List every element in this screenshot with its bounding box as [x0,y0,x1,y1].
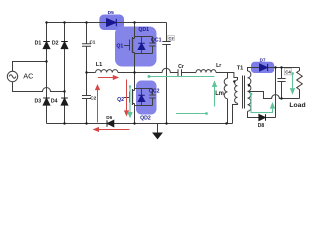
svg-text:Load: Load [289,102,305,109]
svg-text:T1: T1 [237,66,244,72]
svg-text:D7: D7 [260,58,266,63]
svg-text:Cr: Cr [178,64,184,70]
svg-text:C2: C2 [90,96,96,102]
svg-text:QD2: QD2 [140,116,151,122]
svg-text:D6: D6 [106,115,112,120]
svg-text:D5: D5 [108,10,114,16]
svg-text:D2: D2 [52,41,59,47]
svg-text:AC: AC [23,71,34,80]
svg-text:QC1: QC1 [151,37,162,43]
svg-text:L1: L1 [96,62,103,68]
svg-text:D4: D4 [51,98,58,104]
svg-text:QD1: QD1 [138,27,149,33]
svg-text:C1: C1 [89,39,95,44]
svg-text:D1: D1 [35,41,42,47]
svg-text:Q2: Q2 [117,97,124,103]
svg-text:Lr: Lr [216,63,221,69]
svg-text:D3: D3 [34,98,41,104]
svg-text:Q1: Q1 [116,44,123,50]
svg-text:D8: D8 [258,123,265,129]
svg-text:QC2: QC2 [149,89,160,95]
svg-text:Lm: Lm [215,90,224,97]
svg-text:C3: C3 [169,36,175,41]
svg-text:C4: C4 [285,70,291,75]
